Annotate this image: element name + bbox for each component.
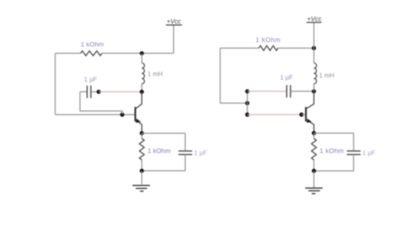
wire left vertical (right ckt) — [219, 48, 221, 103]
capacitor C4 — [314, 133, 361, 171]
capacitor C1 — [80, 86, 99, 98]
node: emitter junction — [140, 131, 144, 135]
transistor Q2 — [306, 91, 314, 133]
wire tie vertical — [246, 91, 248, 114]
svg-text:1 kOhm: 1 kOhm — [256, 37, 281, 44]
node: top rail junction (right ckt) — [312, 46, 316, 50]
wire base rail — [55, 114, 135, 116]
wire emitter rail — [142, 132, 185, 134]
node: emitter network ground junction — [140, 169, 144, 173]
svg-text:1 µF: 1 µF — [280, 75, 293, 82]
node: emitter junction (right ckt) — [312, 131, 316, 135]
ground (right) — [305, 171, 322, 194]
wire base stub — [302, 114, 306, 116]
wire top rail right segment — [102, 52, 174, 54]
node: C1 right lead — [97, 90, 101, 94]
node: mid rail junction — [245, 101, 249, 105]
svg-text:1 kOhm: 1 kOhm — [148, 148, 172, 155]
wire Vcc stem (right ckt) — [313, 22, 315, 48]
node: base junction (right ckt) — [299, 113, 303, 117]
svg-text:1 µF: 1 µF — [194, 150, 207, 157]
wire top rail left segment — [55, 52, 80, 54]
transistor Q1 — [135, 92, 142, 133]
node: collector junction (right ckt) — [312, 89, 316, 93]
node: tie top — [245, 89, 249, 93]
wire emitter rail (right ckt) — [314, 132, 354, 134]
svg-text:1 µF: 1 µF — [84, 77, 97, 84]
wire left vertical — [54, 53, 56, 114]
svg-text:+Vcc: +Vcc — [307, 16, 322, 23]
ground (left) — [133, 171, 150, 191]
svg-text:1 kOhm: 1 kOhm — [320, 148, 345, 155]
wire top rail right segment (right ckt) — [278, 47, 314, 49]
resistor R3 — [259, 46, 278, 51]
resistor R2 leads — [141, 133, 143, 171]
node: collector / L1 / C1 junction — [140, 90, 144, 94]
wire mid rail (right ckt) — [220, 102, 247, 104]
node: base rail / feedback junction — [120, 113, 124, 117]
svg-text:1 mH: 1 mH — [319, 73, 335, 80]
capacitor C2 — [142, 133, 192, 171]
wire feedback C1 to base rail — [80, 92, 122, 115]
node: top rail / inductor junction — [140, 51, 144, 55]
power +Vcc (right) — [307, 16, 323, 23]
power +Vcc (left) — [166, 19, 182, 26]
node: tie bottom — [245, 113, 249, 117]
svg-text:1 mH: 1 mH — [147, 71, 163, 78]
resistor R4 leads — [313, 133, 315, 171]
resistor R1 — [81, 51, 103, 56]
wire (pink) C1 to collector node — [99, 91, 142, 93]
resistor R4 — [312, 139, 317, 160]
inductor L2 — [314, 48, 317, 91]
node: ground junction (right ckt) — [312, 169, 316, 173]
wire (pink) tie to C3 — [247, 90, 286, 92]
inductor L1 — [142, 53, 145, 92]
svg-text:1 µF: 1 µF — [362, 150, 375, 157]
svg-text:+Vcc: +Vcc — [167, 19, 182, 26]
wire (pink) tie to base — [247, 114, 301, 116]
resistor R2 — [139, 139, 144, 160]
wire Vcc stem — [173, 25, 175, 53]
wire top rail left segment (right ckt) — [220, 47, 259, 49]
svg-text:1 kOhm: 1 kOhm — [81, 42, 105, 49]
capacitor C3 — [287, 85, 314, 97]
